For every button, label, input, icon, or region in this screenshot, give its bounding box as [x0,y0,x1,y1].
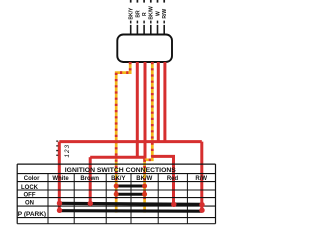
junction dot OFF BK/W [142,192,147,197]
svg-text:R: R [142,12,148,16]
node H4: wire to Red column (horizontal and drop) [152,156,174,204]
pin 4 tick [150,21,152,24]
svg-text:IGNITION SWITCH CONNECTIONS: IGNITION SWITCH CONNECTIONS [65,167,176,174]
wire Brown column drop [89,157,92,203]
pin 5 stub (off-page wire W) [157,0,159,3]
table column line after BK/W [157,174,159,224]
svg-text:Brown: Brown [80,176,99,182]
svg-text:OFF: OFF [24,193,36,199]
svg-text:R/W: R/W [195,176,207,182]
table line under ON [17,205,215,207]
junction dot ON Brown [88,201,93,206]
wire R/W (red) from connector down to H2 level [163,62,166,142]
svg-text:BK/W: BK/W [149,6,155,20]
pin 1 lead [130,25,132,35]
pin 6 lead [163,25,165,35]
pin 4 stub (off-page wire BK/W) [150,0,152,3]
svg-text:White: White [52,176,69,182]
P (PARK) row contact bar (White to R/W) [60,209,203,213]
LOCK row contact bar (BK/Y to BK/W) [116,185,144,188]
svg-text:LOCK: LOCK [21,185,39,191]
wire White column drop [58,142,61,211]
table column line after BK/Y [130,174,132,224]
pin 2 tick [136,21,138,24]
junction dot LOCK BK/W [142,184,147,189]
wire BK/W (yellow with red dashes) from connector, jogs left into BK/W column [145,62,153,213]
table top border [17,163,215,165]
table left border [16,164,18,224]
wire R (red) vertical from connector to H3 corner [144,62,147,158]
table bottom border [17,223,215,225]
table line under LOCK [17,189,215,191]
table column line after Brown [105,174,107,224]
pin 1 stub (off-page wire BK/Y) [130,0,132,3]
junction dot LOCK BK/Y [114,184,119,189]
svg-text:BR: BR [135,10,141,18]
pin 3 lead [143,25,145,35]
pin 6 tick [163,21,165,24]
OFF row contact bar (BK/Y to BK/W) [116,193,144,196]
node H3: horizontal to Brown column [90,156,146,159]
tick marks on White wire [56,141,58,160]
pin 6 stub (off-page wire R/W) [163,0,165,3]
table line under color header [17,181,215,183]
pin 2 stub (off-page wire BR) [136,0,138,3]
svg-text:Color: Color [24,176,40,182]
table line under title [17,173,215,175]
pin 3 tick [143,21,145,24]
pin 1 tick [130,21,132,24]
table column line after White [73,174,75,224]
junction dot PARK R/W [199,208,204,213]
junction dot OFF BK/Y [114,192,119,197]
svg-text:R/W: R/W [162,9,168,19]
wire R/W column drop [200,142,203,211]
connector body (ignition switch plug) [117,35,172,63]
svg-text:ON: ON [25,201,34,207]
ON row contact bar (White to R/W) [60,203,203,204]
pin 3 stub (off-page wire R) [143,0,145,3]
junction dot ON R/W [199,202,204,207]
node H2: long horizontal (W to White column, R/W to R/W column) [59,140,202,143]
svg-text:BK/Y: BK/Y [129,7,135,20]
svg-text:Red: Red [167,176,179,182]
table column line after Color [47,174,49,224]
table line under OFF [17,197,215,199]
junction dot PARK White [57,208,62,213]
table right border [215,164,217,224]
pin 2 lead [136,25,138,35]
pin 5 tick [157,21,159,24]
wire BK/Y (yellow with red dashes) from connector to BK/Y column [116,62,130,213]
junction dot ON Red [171,202,176,207]
svg-text:123: 123 [64,144,71,158]
table column line after Red [186,174,188,224]
pin 4 lead [150,25,152,35]
svg-text:BK/W: BK/W [136,176,152,182]
wire BR (red) from connector down to node H3 [136,62,139,158]
table line under P (PARK) [17,217,215,219]
svg-text:BK/Y: BK/Y [111,176,125,182]
svg-text:W: W [155,11,161,16]
wire W (red) from connector down to H2 [157,62,160,142]
svg-text:P (PARK): P (PARK) [18,211,46,218]
junction dot ON White [57,201,62,206]
pin 5 lead [157,25,159,35]
